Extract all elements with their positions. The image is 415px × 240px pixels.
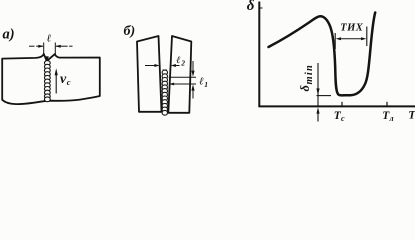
svg-text:ℓ: ℓ	[199, 77, 204, 88]
svg-text:ТИХ: ТИХ	[340, 23, 364, 34]
weld seam mouth (dark wedge)	[44, 56, 49, 63]
tick T_l	[386, 102, 388, 107]
dimension l : shafts with dash-dot	[29, 45, 35, 47]
svg-text:с: с	[341, 114, 345, 123]
ductility curve	[269, 13, 376, 96]
label delta_min (rotated)	[298, 64, 315, 92]
TIX dimension extension lines	[334, 33, 336, 49]
svg-text:δ: δ	[298, 85, 312, 92]
below-axis up arrow	[317, 111, 319, 122]
TIX double arrow	[338, 38, 364, 40]
delta_min down arrow	[317, 63, 319, 106]
weld seam mouth (dark wedge)	[162, 70, 167, 75]
left tilted plate	[137, 36, 162, 112]
svg-text:1: 1	[204, 80, 208, 89]
svg-text:min: min	[304, 64, 315, 85]
svg-text:л: л	[389, 114, 394, 123]
svg-text:ℓ: ℓ	[176, 55, 180, 66]
weld seam column (scalloped bead)	[44, 61, 50, 102]
plate cross-section outline	[2, 54, 100, 104]
dimension l2 : shafts	[145, 65, 180, 67]
welding speed arrow v_c	[55, 73, 57, 94]
svg-text:а): а)	[3, 27, 15, 43]
x axis	[258, 105, 415, 107]
dimension l1 : vertical arrows	[192, 61, 194, 72]
svg-text:б): б)	[124, 24, 136, 39]
svg-text:2: 2	[180, 58, 185, 67]
y axis	[258, 2, 260, 107]
y axis tick	[259, 7, 263, 9]
svg-text:Т: Т	[408, 108, 415, 122]
dimension l1 : level lines	[169, 76, 196, 78]
svg-text:c: c	[67, 77, 71, 87]
dimension l : extension lines	[29, 43, 73, 57]
dimension l : arrowheads	[38, 45, 43, 48]
delta_min level line	[317, 95, 332, 97]
tick T_c	[341, 102, 343, 107]
right tilted plate	[168, 36, 191, 113]
svg-text:ℓ: ℓ	[47, 34, 52, 45]
dimension l2 : arrowheads	[154, 64, 159, 67]
weld seam column (scalloped bead)	[162, 70, 167, 115]
svg-text:δ: δ	[247, 0, 255, 14]
